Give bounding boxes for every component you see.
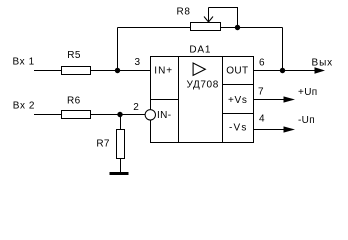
pin label IN- — [157, 110, 171, 121]
node junction C (output / feedback) — [280, 68, 285, 73]
svg-text:-Vs: -Vs — [229, 123, 248, 134]
svg-text:3: 3 — [134, 57, 140, 68]
svg-text:OUT: OUT — [226, 66, 248, 77]
wire feedback top horizontal — [118, 27, 283, 29]
svg-text:IN-: IN- — [157, 110, 171, 121]
svg-text:Вх 2: Вх 2 — [13, 101, 35, 112]
wire input 2 left segment — [34, 114, 62, 116]
wire R6 to IN- — [91, 114, 146, 116]
op-amp U1 DA1 body — [151, 57, 254, 143]
wire R5 to IN+ — [91, 70, 151, 72]
label Вх 2 — [13, 101, 35, 112]
node junction R8 wiper — [235, 25, 240, 30]
wire R7 upper vertical — [120, 115, 122, 130]
svg-text:R6: R6 — [67, 95, 81, 106]
pin label +Vs — [228, 95, 248, 106]
svg-text:4: 4 — [259, 113, 265, 124]
op-amp triangle symbol — [193, 63, 205, 75]
svg-text:IN+: IN+ — [154, 66, 173, 77]
node junction A (IN+ / feedback) — [115, 68, 120, 73]
svg-text:2: 2 — [133, 102, 139, 113]
svg-text:7: 7 — [258, 87, 264, 98]
-Vs arrow — [284, 126, 296, 132]
wire input 1 left segment — [34, 70, 62, 72]
wire R8 wiper loop — [209, 8, 238, 28]
pin label -Vs — [229, 123, 248, 134]
pin label IN+ — [154, 66, 173, 77]
svg-text:6: 6 — [259, 58, 265, 69]
inverting input bubble — [145, 110, 155, 120]
pin number 3 — [134, 57, 140, 68]
+Vs arrow — [284, 96, 296, 102]
node junction B (IN- / R7) — [117, 112, 122, 117]
pin number 7 — [258, 87, 264, 98]
ground — [110, 172, 129, 175]
label Вых — [312, 57, 334, 68]
pin number 6 — [259, 58, 265, 69]
op-amp value УД708 — [187, 79, 219, 90]
svg-text:R7: R7 — [96, 139, 110, 150]
svg-text:+Uп: +Uп — [298, 87, 318, 98]
wire output — [254, 70, 317, 72]
svg-text:-Uп: -Uп — [298, 115, 315, 126]
svg-text:Вх 1: Вх 1 — [13, 57, 35, 68]
resistor R6 — [62, 95, 91, 118]
svg-text:УД708: УД708 — [187, 79, 219, 90]
pin number 2 — [133, 102, 139, 113]
label +Uп — [298, 87, 318, 98]
svg-text:R8: R8 — [177, 7, 191, 18]
resistor R7 — [96, 130, 124, 159]
svg-text:Вых: Вых — [312, 57, 334, 68]
wire -Vs supply — [254, 129, 286, 131]
potentiometer R8 — [177, 7, 221, 31]
wire feedback left vertical — [117, 28, 119, 71]
svg-text:+Vs: +Vs — [228, 95, 248, 106]
wire +Vs supply — [254, 99, 286, 101]
pin number 4 — [259, 113, 265, 124]
wire R7 lower vertical — [120, 159, 122, 173]
output arrow — [315, 67, 326, 73]
wire feedback right vertical — [282, 28, 284, 71]
svg-text:DA1: DA1 — [189, 44, 211, 55]
resistor R5 — [62, 50, 91, 74]
label -Uп — [298, 115, 315, 126]
op-amp label DA1 — [189, 44, 211, 55]
pin label OUT — [226, 66, 248, 77]
svg-text:R5: R5 — [67, 50, 81, 61]
label Вх 1 — [13, 57, 35, 68]
